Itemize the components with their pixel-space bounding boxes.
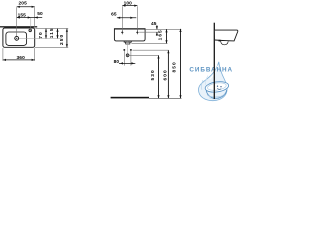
svg-text:50: 50 bbox=[37, 11, 43, 17]
floor line (thick) bbox=[111, 97, 149, 99]
waste outlet circle bbox=[126, 54, 129, 57]
dim 80 bbox=[114, 51, 136, 66]
svg-text:530: 530 bbox=[150, 69, 156, 80]
svg-text:СИБВАННА: СИБВАННА bbox=[189, 66, 233, 73]
dim 600 bbox=[162, 50, 169, 98]
bolts leader bbox=[133, 49, 169, 51]
svg-text:100: 100 bbox=[124, 0, 133, 6]
svg-text:155: 155 bbox=[18, 12, 27, 18]
floor extension line (thin) bbox=[149, 97, 182, 99]
tap hole bbox=[29, 29, 32, 32]
centerline (front) bbox=[127, 41, 129, 58]
tap centerline (gray) bbox=[30, 18, 32, 29]
rim extension line right bbox=[145, 28, 181, 30]
basin bowl bbox=[6, 32, 27, 45]
basin profile bbox=[215, 30, 238, 41]
dim 65 bbox=[111, 12, 136, 19]
bolt dots bbox=[123, 49, 125, 51]
hanger hole left bbox=[121, 30, 123, 35]
svg-text:850: 850 bbox=[172, 61, 178, 72]
svg-text:70: 70 bbox=[38, 31, 44, 38]
dim 45 bbox=[151, 21, 158, 36]
dim 165 bbox=[157, 29, 167, 43]
dim 530 bbox=[150, 55, 159, 98]
front rim (thick top edge) bbox=[114, 28, 145, 30]
trap dome bbox=[221, 41, 229, 45]
svg-text:165: 165 bbox=[157, 29, 163, 40]
dim 850 bbox=[172, 29, 182, 98]
front body bbox=[114, 29, 145, 41]
dim 50 bbox=[31, 11, 43, 19]
logo drop bbox=[199, 62, 228, 101]
svg-text:80: 80 bbox=[114, 59, 120, 65]
top edge extension line (right) bbox=[35, 28, 68, 30]
dim 155 bbox=[17, 12, 31, 18]
drain boss bbox=[219, 40, 221, 42]
hole row extension line right bbox=[139, 31, 159, 33]
wall line bbox=[213, 23, 215, 99]
svg-text:115: 115 bbox=[49, 27, 55, 38]
dim 250 bbox=[59, 29, 68, 48]
dim 205 bbox=[17, 1, 35, 28]
svg-text:600: 600 bbox=[162, 69, 168, 80]
svg-text:360: 360 bbox=[17, 55, 26, 61]
trap leader bbox=[132, 42, 168, 44]
dim 70 bbox=[38, 29, 47, 39]
drain bbox=[16, 36, 18, 41]
dim 360 bbox=[3, 48, 35, 61]
waste leader bbox=[129, 54, 158, 56]
svg-text:65: 65 bbox=[111, 12, 117, 18]
drain centerline (gray) bbox=[16, 7, 18, 36]
trap under front view bbox=[124, 41, 131, 44]
dim 100 bbox=[122, 0, 137, 30]
washbasin outer rim bbox=[3, 28, 35, 47]
wall (top view, thick) bbox=[0, 26, 37, 27]
svg-text:205: 205 bbox=[19, 1, 28, 7]
drain row extension line bbox=[19, 37, 61, 39]
bottom edge extension line (right) bbox=[35, 46, 68, 48]
logo bathtub bbox=[205, 80, 230, 99]
dim 115 bbox=[49, 27, 58, 38]
hanger hole right bbox=[136, 30, 138, 35]
svg-text:250: 250 bbox=[59, 34, 65, 45]
svg-text:45: 45 bbox=[151, 21, 157, 27]
